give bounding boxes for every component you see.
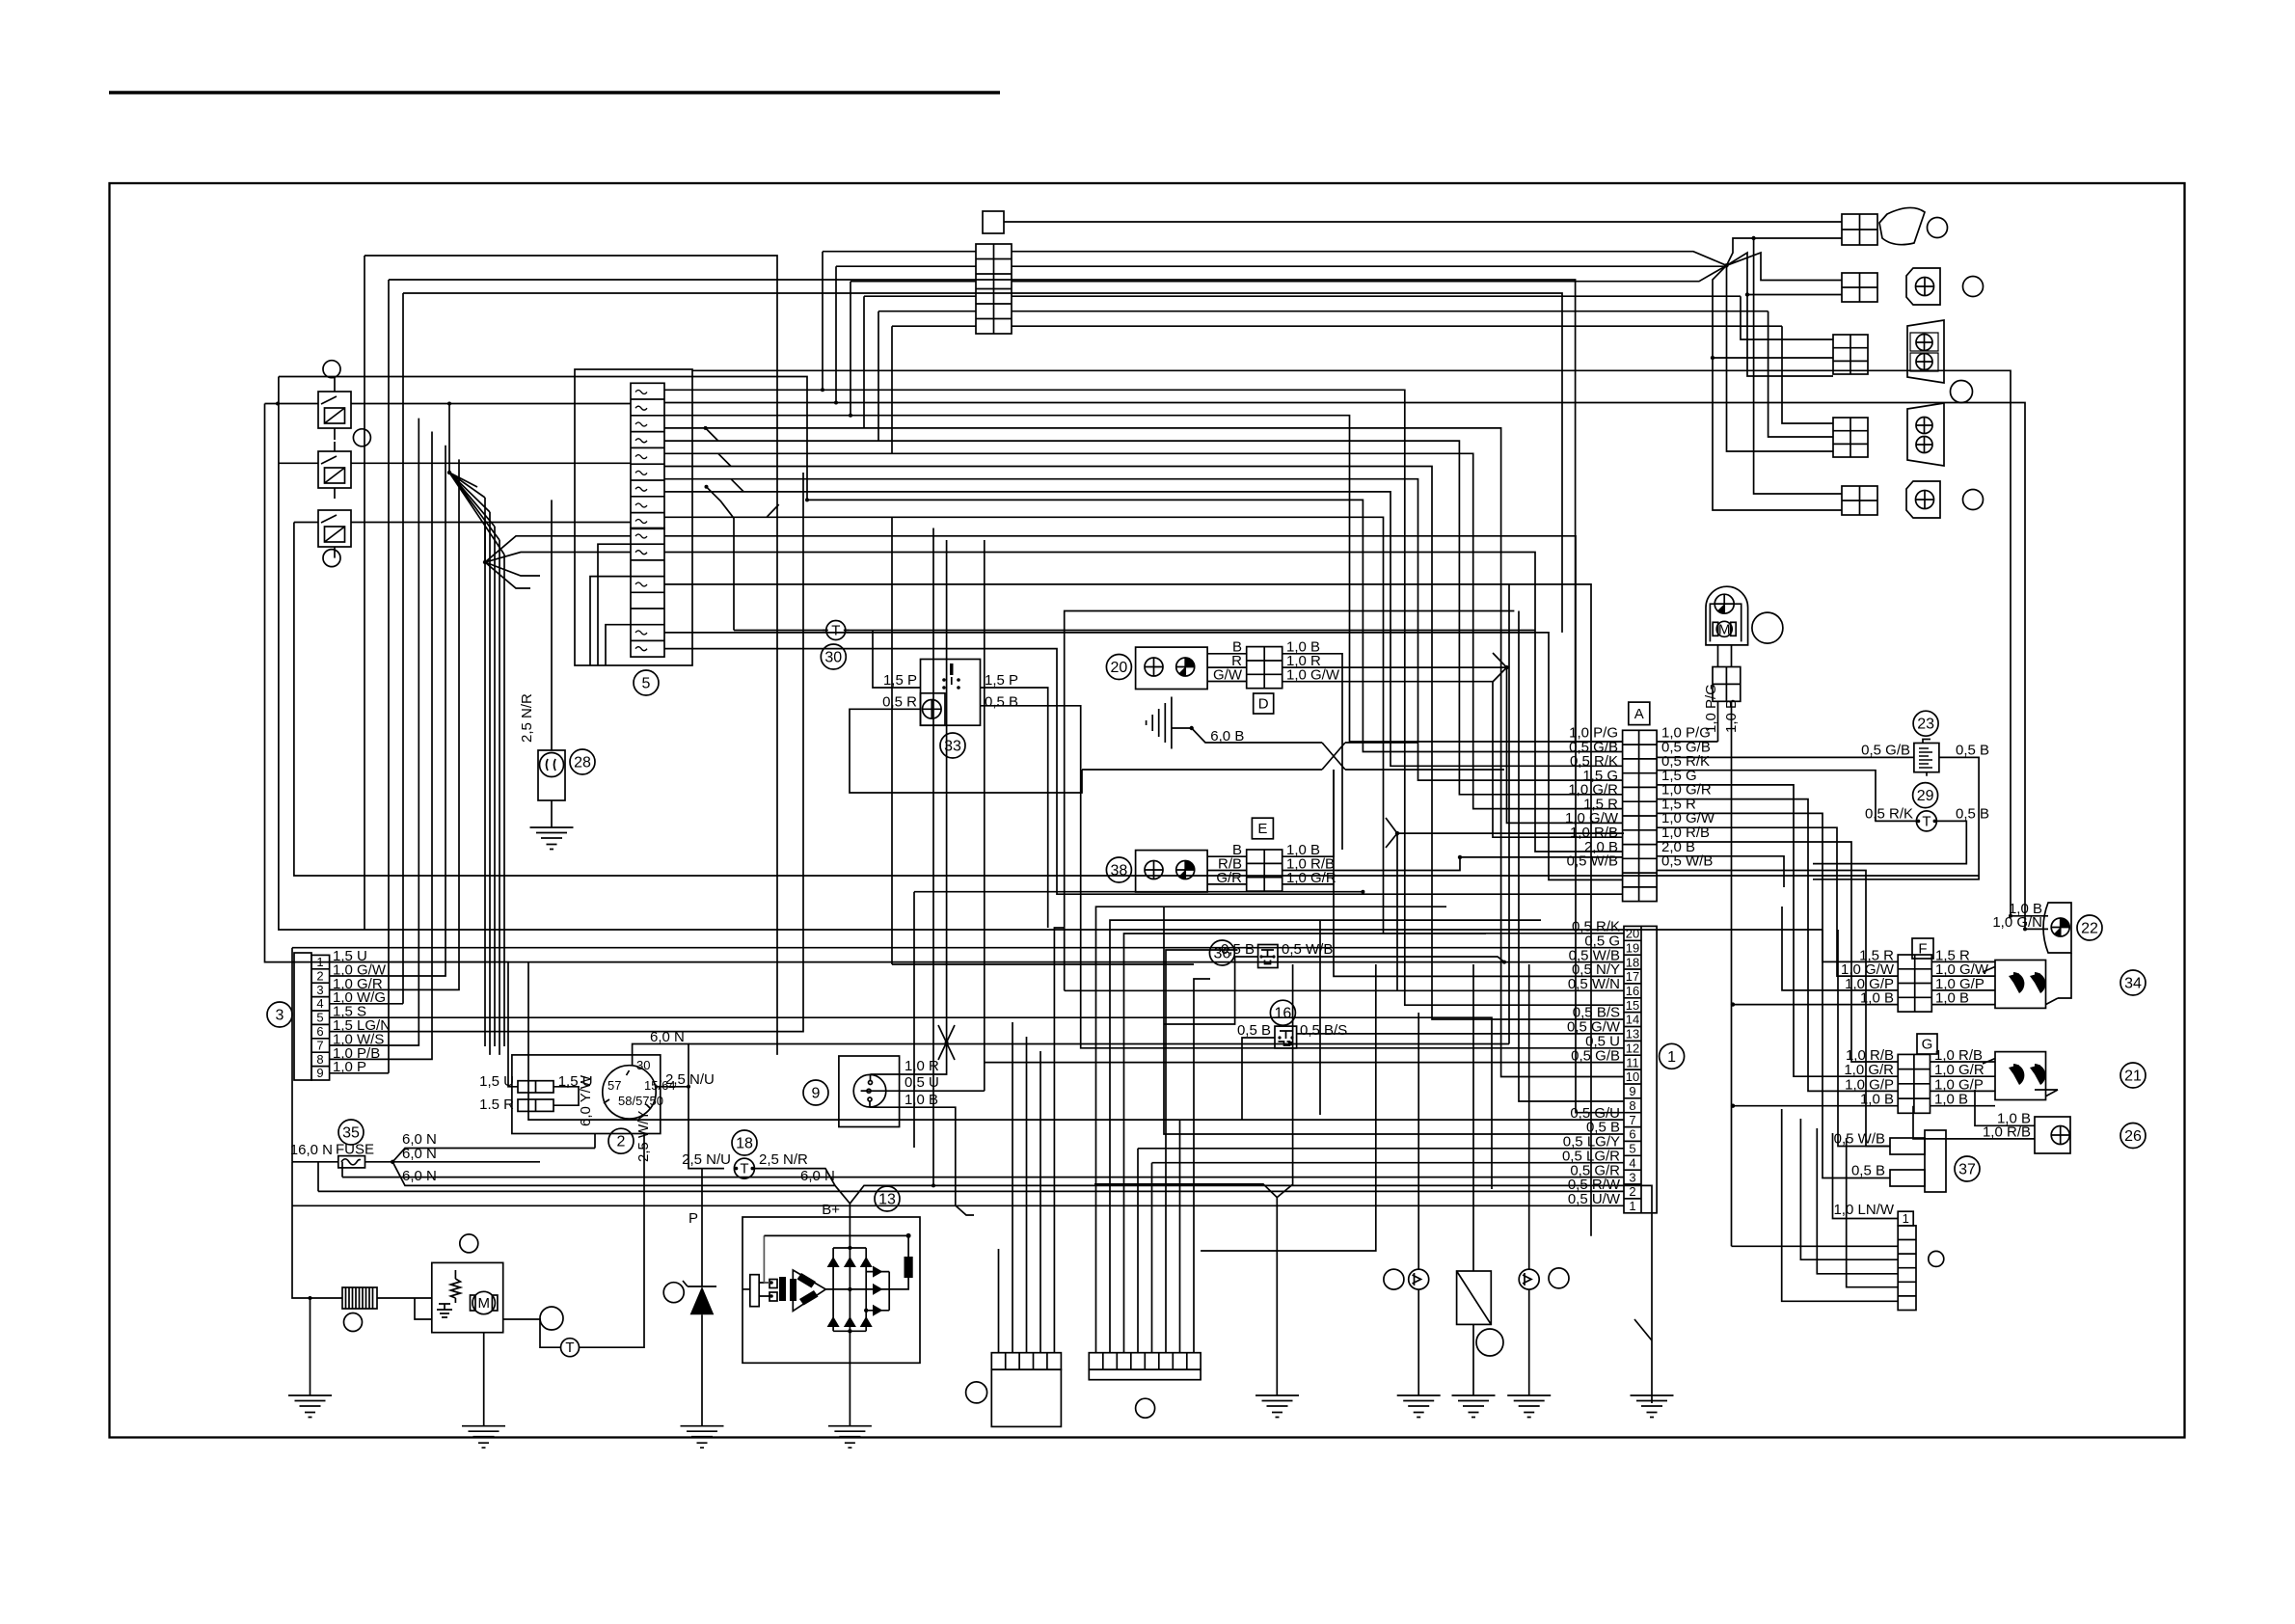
wires G to 21: [1930, 1062, 1996, 1106]
svg-text:8: 8: [1629, 1098, 1635, 1113]
zener diode: [683, 1281, 716, 1314]
svg-text:1: 1: [1667, 1049, 1676, 1066]
F G left feeds: [1733, 907, 1898, 1106]
svg-text:37: 37: [1958, 1162, 1976, 1178]
wire mid drop to 8pin: [1201, 964, 1376, 1251]
label 1: [1660, 1043, 1685, 1069]
labels G left: [1844, 1047, 1894, 1108]
svg-text:18: 18: [1626, 955, 1639, 969]
junction arrows mid: [1386, 653, 1507, 848]
svg-text:0,5 B: 0,5 B: [1237, 1022, 1271, 1039]
label 28: [570, 749, 595, 774]
svg-text:M: M: [1718, 621, 1731, 637]
wires relay right verticals: [1418, 964, 1529, 1395]
alternator stator: [742, 1235, 825, 1311]
connector top 2x6: [976, 244, 1012, 334]
wire 1,0 P/G vertical: [1657, 701, 1717, 742]
harness fan junction upper: [449, 404, 504, 1055]
labels connector 1 left: [1562, 919, 1621, 1208]
circle horn: [1928, 218, 1948, 238]
wire lamp cluster verticals: [1741, 296, 1833, 437]
connector 37: [1890, 1130, 1946, 1192]
wire lamp26: [1913, 1090, 2058, 1139]
tail lamp twin 1: [1833, 320, 1944, 383]
svg-text:3: 3: [276, 1008, 284, 1024]
wires F to 34: [1931, 961, 1995, 1004]
circle twin lamps: [1951, 381, 1973, 403]
labels G right: [1934, 1047, 1984, 1108]
wire motor ground: [483, 1333, 485, 1426]
connector G: [1898, 1054, 1930, 1113]
svg-text:D: D: [1258, 696, 1269, 713]
junction V to ground center: [1094, 964, 1293, 1395]
ground motor: [462, 1426, 505, 1448]
svg-text:38: 38: [1111, 863, 1128, 880]
svg-text:E: E: [1257, 821, 1267, 837]
svg-text:6,0 Y/W: 6,0 Y/W: [578, 1074, 594, 1126]
fuel pump assembly: [1706, 586, 1748, 645]
noise filter ground: [1147, 697, 1192, 749]
wire 6,0 B: [1082, 728, 1504, 770]
svg-text:P: P: [688, 1210, 698, 1227]
E connector right wires: [1282, 770, 1623, 884]
wire rectifier ground: [849, 1331, 850, 1425]
wires 9: [861, 540, 1624, 1215]
svg-text:0,5 B: 0,5 B: [1956, 806, 1989, 823]
svg-text:6: 6: [1629, 1127, 1635, 1142]
svg-text:9: 9: [316, 1066, 323, 1080]
wire LN/W pin1: [1833, 1133, 1899, 1219]
svg-text:2: 2: [316, 968, 323, 983]
ground right3: [1507, 1395, 1551, 1418]
branch 6,0 N x3: [392, 1149, 1652, 1404]
label 26: [2120, 1123, 2146, 1149]
svg-text:2,5 N/R: 2,5 N/R: [519, 693, 535, 743]
connector E 2x3: [1247, 850, 1282, 891]
svg-text:0,5 G/B: 0,5 G/B: [1861, 743, 1910, 759]
lamp 22: [2043, 903, 2071, 953]
svg-text:0,5 W/B: 0,5 W/B: [1282, 941, 1333, 958]
svg-text:6,0 N: 6,0 N: [402, 1146, 437, 1162]
band bus top: [664, 370, 2025, 929]
svg-text:23: 23: [1917, 717, 1934, 733]
label D: [1254, 693, 1274, 714]
light switch 2: [512, 1055, 676, 1134]
circle zener: [663, 1283, 684, 1303]
labels F left: [1841, 947, 1895, 1006]
svg-text:11: 11: [1626, 1055, 1639, 1069]
svg-text:T: T: [565, 1340, 574, 1356]
svg-text:A: A: [1634, 706, 1644, 722]
connector F: [1898, 955, 1931, 1012]
svg-text:1,5 P: 1,5 P: [985, 672, 1018, 689]
fuse box 5: [575, 369, 692, 665]
turn signal 21: [1983, 1052, 2058, 1100]
wire switch2 30 terminal: [633, 1044, 724, 1169]
wire 1,0 B vertical: [1731, 701, 1733, 1246]
wire 36 left 0,5 B: [1164, 957, 1258, 1024]
thermo 30 wire: [734, 630, 1535, 632]
svg-text:0,5 B: 0,5 B: [985, 694, 1018, 711]
svg-text:12: 12: [1626, 1042, 1639, 1056]
svg-text:2: 2: [1629, 1184, 1635, 1199]
lamp rear position: [1842, 481, 1940, 518]
svg-text:35: 35: [342, 1125, 360, 1142]
svg-text:7: 7: [1629, 1113, 1635, 1127]
wire relay to T: [415, 1298, 561, 1347]
label 35: [338, 1120, 364, 1145]
wire 6,0 Y/W: [594, 1134, 596, 1149]
wire lamp22: [2011, 916, 2048, 930]
svg-text:6,0 B: 6,0 B: [1210, 728, 1244, 744]
circle fuel pump: [1752, 612, 1783, 643]
starter relay: [432, 1262, 503, 1332]
lane change jogs: [706, 428, 779, 517]
svg-text:1,0 B: 1,0 B: [1723, 699, 1740, 733]
switch 16: [1275, 1026, 1297, 1048]
wire 23 29 loop: [1657, 757, 1979, 879]
wire 2,5 N/R bulb: [551, 500, 553, 827]
bulb 28: [538, 750, 565, 800]
relay assembly right: [1384, 1268, 1569, 1356]
svg-text:19: 19: [1626, 940, 1639, 955]
wire 18 right: [754, 1169, 835, 1186]
svg-text:5: 5: [316, 1011, 323, 1025]
D connector right wires: [1282, 654, 1623, 850]
svg-text:G: G: [1922, 1037, 1933, 1053]
ignition unit 9: [839, 1056, 900, 1127]
fuse lower rows right: [664, 536, 1624, 1236]
rectifier 13 box: [742, 1217, 920, 1363]
label E: [1252, 818, 1273, 839]
ground center: [1255, 1395, 1299, 1418]
ground bulb 28: [530, 827, 574, 850]
svg-text:30: 30: [824, 650, 842, 666]
svg-text:9: 9: [1629, 1084, 1635, 1098]
circle relay3 bottom: [323, 550, 340, 567]
circle LN/W: [1929, 1251, 1944, 1266]
diode bridge: [764, 1233, 912, 1334]
connector LN/W: [1898, 1211, 1916, 1311]
circle relay1 right: [353, 429, 370, 447]
svg-text:26: 26: [2124, 1128, 2142, 1145]
svg-text:28: 28: [574, 755, 591, 771]
wire 2,5 N/U from switch: [655, 1086, 688, 1088]
thermo sensor 29: [1916, 811, 1936, 831]
wire 2,5 W/Y: [579, 1134, 644, 1348]
circle 8pin: [1136, 1398, 1155, 1418]
svg-text:0,5 R: 0,5 R: [882, 694, 917, 711]
svg-text:5: 5: [642, 676, 651, 692]
label 36: [1209, 940, 1234, 965]
circle lamp rear: [1963, 490, 1984, 510]
wires 38 to E: [1207, 856, 1247, 884]
svg-text:5: 5: [1629, 1142, 1635, 1156]
title underline: [109, 91, 1000, 95]
svg-text:T: T: [1922, 813, 1930, 829]
wire 2x6 left bends down: [823, 252, 892, 454]
band staircase wires: [279, 377, 1623, 752]
connector 8pin: [1089, 1353, 1201, 1380]
fuse 35: [338, 1156, 365, 1168]
wire horn feed: [823, 222, 1842, 326]
node top square: [983, 211, 1004, 233]
label 30: [821, 644, 846, 669]
connector 3: [294, 953, 330, 1080]
svg-text:1,5 P: 1,5 P: [883, 672, 917, 689]
svg-text:M: M: [477, 1295, 490, 1312]
svg-text:T: T: [831, 623, 840, 639]
turn signal 34: [1983, 961, 2058, 1009]
fuse left wires: [590, 544, 631, 665]
svg-text:0,5 B: 0,5 B: [1851, 1163, 1885, 1179]
A right wires to right side: [1657, 785, 1898, 1147]
harness fan junction lower: [485, 523, 631, 589]
svg-text:3: 3: [316, 983, 323, 997]
thermo switch 30: [823, 621, 850, 640]
svg-text:30: 30: [636, 1058, 650, 1072]
labels A left: [1565, 725, 1619, 870]
svg-text:34: 34: [2124, 976, 2142, 992]
ground zener: [681, 1426, 724, 1448]
svg-text:58/5750: 58/5750: [618, 1094, 663, 1108]
wire pump to connector: [1718, 645, 1732, 667]
labels connector 3: [333, 948, 391, 1075]
connector 1 left wires: [1065, 770, 1624, 990]
connector 3 pin wires right: [330, 419, 1492, 1189]
svg-text:15: 15: [1626, 998, 1639, 1013]
labels A right: [1661, 725, 1715, 870]
label 5: [634, 670, 659, 695]
svg-text:1: 1: [1629, 1199, 1635, 1213]
switch 36: [1258, 945, 1278, 968]
circle battery: [344, 1313, 363, 1332]
label G: [1917, 1034, 1937, 1054]
connector A: [1623, 730, 1658, 901]
relay left 3: [318, 510, 351, 547]
svg-text:4: 4: [1629, 1155, 1635, 1170]
label 37: [1955, 1156, 1980, 1181]
wires into 5pin: [999, 928, 1065, 1353]
svg-text:0,5 B: 0,5 B: [1956, 743, 1989, 759]
circle lamp1: [1963, 277, 1984, 297]
wires LNW stack left: [1732, 1109, 1899, 1301]
label 20: [1106, 655, 1131, 680]
vertical bundle feeds down: [688, 584, 1509, 1044]
svg-text:0,5 W/B: 0,5 W/B: [1834, 1131, 1885, 1148]
horn: [1842, 207, 1925, 245]
label A: [1629, 702, 1650, 725]
instrument box outline: [1065, 611, 1515, 991]
connector 1 (20 pin): [1624, 926, 1657, 1212]
lamp 26: [2035, 1117, 2070, 1153]
label 29: [1913, 783, 1938, 808]
wires 20 to D: [1207, 654, 1247, 682]
svg-text:B+: B+: [822, 1202, 840, 1218]
tail lamp twin 2: [1833, 403, 1944, 466]
pin numbers connector 1: [1626, 927, 1639, 1214]
connector D 2x3: [1247, 647, 1282, 689]
wire 16 to pin13: [1242, 1034, 1624, 1120]
label 9: [803, 1080, 828, 1105]
svg-text:18: 18: [736, 1136, 753, 1152]
crossover mark ignition: [938, 1025, 955, 1060]
labels F right: [1935, 947, 1989, 1006]
svg-text:22: 22: [2081, 921, 2098, 937]
svg-text:7: 7: [316, 1038, 323, 1052]
label 38: [1106, 857, 1131, 882]
svg-text:T: T: [740, 1161, 748, 1177]
label 2: [608, 1128, 634, 1153]
connector pump 2x2: [1713, 667, 1741, 702]
svg-text:0,5 R/K: 0,5 R/K: [1865, 806, 1913, 823]
svg-text:1.5 R: 1.5 R: [479, 1096, 514, 1113]
wire 22 to 34: [2058, 953, 2071, 998]
circle starter relay: [460, 1234, 478, 1253]
svg-text:29: 29: [1917, 788, 1934, 804]
svg-text:1: 1: [1903, 1211, 1909, 1226]
pin numbers connector 3: [316, 955, 323, 1080]
circle 5pin: [966, 1382, 987, 1403]
svg-text:20: 20: [1111, 660, 1128, 676]
svg-text:6,0 N: 6,0 N: [402, 1168, 437, 1184]
resistor unit 23: [1914, 740, 1939, 776]
label 23: [1913, 711, 1938, 736]
switch 33 (brake): [921, 660, 981, 726]
wire 16,0 N to battery: [292, 1162, 342, 1298]
label 21: [2120, 1063, 2146, 1088]
ground right2: [1452, 1395, 1496, 1418]
wire 37: [1822, 930, 1890, 1178]
svg-text:0,5 B/S: 0,5 B/S: [1300, 1022, 1347, 1039]
svg-text:21: 21: [2124, 1069, 2142, 1085]
svg-text:6: 6: [316, 1024, 323, 1039]
svg-text:FUSE: FUSE: [336, 1142, 374, 1158]
ground rectifier: [828, 1426, 872, 1448]
relay flasher left 1: [318, 392, 351, 428]
thermo switch 18: [734, 1158, 754, 1178]
svg-text:2,5 N/R: 2,5 N/R: [759, 1151, 808, 1168]
svg-text:16: 16: [1275, 1006, 1292, 1022]
wires fuse 35: [292, 1161, 392, 1163]
svg-text:16: 16: [1626, 984, 1639, 998]
svg-text:20: 20: [1626, 927, 1639, 941]
instrument panel 20 box: [1136, 647, 1208, 689]
lamp position front: [1842, 268, 1940, 305]
circle above T starter: [540, 1307, 563, 1330]
label F: [1912, 938, 1933, 959]
ground right1: [1397, 1395, 1441, 1418]
svg-text:16,0 N: 16,0 N: [290, 1142, 333, 1158]
svg-text:1,0 LN/W: 1,0 LN/W: [1833, 1202, 1894, 1218]
svg-text:17: 17: [1626, 969, 1639, 984]
thermo T starter: [561, 1339, 580, 1357]
svg-text:14: 14: [1626, 1013, 1639, 1027]
ground bottom right: [1631, 1395, 1674, 1418]
circle relay1 top: [323, 361, 340, 378]
svg-text:0,5 U/W: 0,5 U/W: [1568, 1191, 1621, 1207]
label 22: [2077, 915, 2102, 940]
wire 36 right 0,5 W/B: [1278, 957, 1504, 962]
svg-text:10: 10: [1626, 1069, 1639, 1084]
frame border: [110, 183, 2185, 1438]
wire battery ground: [310, 1298, 311, 1395]
svg-text:3: 3: [1629, 1170, 1635, 1184]
switch 33 wires: [850, 631, 1624, 1048]
wire top loop left: [364, 256, 1623, 1073]
label 3: [267, 1002, 292, 1027]
label 16: [1270, 1000, 1295, 1025]
svg-text:4: 4: [316, 996, 323, 1011]
wire to ground right: [1634, 1319, 1652, 1340]
relay left 2: [318, 451, 351, 488]
svg-text:8: 8: [316, 1052, 323, 1067]
connector 5pin: [991, 1353, 1061, 1427]
svg-text:2: 2: [617, 1134, 626, 1150]
svg-text:6,0 N: 6,0 N: [800, 1168, 835, 1184]
svg-text:F: F: [1918, 941, 1927, 958]
battery: [342, 1287, 377, 1309]
svg-text:13: 13: [1626, 1027, 1639, 1042]
wires into 8pin: [1096, 907, 1542, 1352]
fuse symbols: [635, 391, 647, 651]
label 34: [2120, 970, 2146, 995]
label 33: [940, 733, 965, 758]
label 18: [732, 1130, 757, 1155]
instrument panel 38 box: [1136, 851, 1208, 892]
ground battery: [288, 1395, 332, 1418]
svg-text:2,5 N/U: 2,5 N/U: [682, 1151, 731, 1168]
misc mid verticals: [892, 517, 1363, 1185]
left margin verticals: [265, 377, 1980, 1162]
svg-text:9: 9: [812, 1086, 821, 1102]
wire zener: [701, 1169, 703, 1426]
wire relay rows to fuse: [351, 404, 631, 523]
svg-text:0,5 W/B: 0,5 W/B: [1567, 853, 1618, 870]
svg-text:57: 57: [607, 1078, 621, 1093]
wire battery to relay: [377, 1297, 432, 1299]
label 13: [875, 1186, 900, 1211]
